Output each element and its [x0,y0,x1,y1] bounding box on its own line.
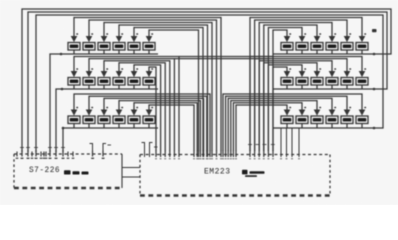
wire: valve YV13 control lead up to bundle y=94 right to column x=210 down to EM223 terminal [74,94,210,151]
junction on left row 3 bus [62,127,65,130]
solenoid valve YV2 actuator arrow [86,36,93,42]
wire: valve YV11 control lead up to bundle y=65 right to column x=161 down to EM223 terminal [134,65,161,151]
terminal label tick [196,158,198,159]
solenoid valve YV5 actuator arrow [131,36,138,42]
wire: valve YV10 common stub to row bus [118,85,120,89]
solenoid valve YV21 pin label [319,33,321,35]
wire: valve YV31 control lead up to bundle y=105 left to column x=236 down to EM223 terminal [236,105,287,151]
wire: valve YV23 control lead up to bundle y=20 left to column x=255 down to EM223 terminal [255,20,347,151]
wire: valve YV4 control lead up to bundle y=25 right to column x=208 down to EM223 terminal [119,25,208,151]
solenoid valve YV18 pin label [151,107,153,109]
wire: valve YV27 common stub to row bus [316,85,318,89]
solenoid valve YV9 box [98,78,110,86]
spare terminal pin on S7-226 top edge x=73 [72,152,74,157]
solenoid valve YV13 box [68,116,80,124]
solenoid valve YV23 box [341,43,353,51]
expansion module U2 EM223 outline left edge (dashed) [139,155,141,196]
spare output stub on EM223 top edge x=281 [280,129,282,158]
wire: valve YV3 control lead up to bundle y=22 right to column x=212 down to EM223 terminal [104,23,212,152]
wire: valve YV11 common stub to row bus [133,85,135,89]
EM223 supply terminal stub L+ [142,143,145,158]
wire: valve YV14 control lead up to bundle y=96 right to column x=207 down to EM223 terminal [89,96,207,151]
wire: valve YV8 common stub to row bus [88,85,90,89]
wire: net COM3 from S7-226 terminal up left riser x=36 across top y=15 down right riser x=383 to row-3R bus [36,15,383,152]
solenoid valve YV27 pin label [319,68,321,70]
wire: valve YV26 control lead up to bundle y=65 left to column x=268 down to EM223 terminal [268,65,302,151]
terminal pin on EM223 top edge x=169.8 [169,151,171,158]
terminal pin on EM223 top edge x=236.0 [235,151,237,158]
terminal label tick [249,158,251,159]
wire: valve YV18 common stub to row bus [148,124,150,129]
terminal pin on EM223 top edge x=233.4 [232,151,234,158]
solenoid valve YV4 box [113,43,125,51]
solenoid valve YV3 pin label [106,33,108,35]
terminal label tick [206,158,208,159]
terminal pin on EM223 top edge x=228.2 [227,151,229,158]
solenoid valve YV7 box [68,78,80,86]
terminal pin on EM223 top edge x=259.2 [258,151,260,158]
scan noise overlay [0,0,1,1]
solenoid valve YV6 box [143,43,155,51]
solenoid valve YV24 actuator arrow [359,36,366,42]
solenoid valve YV9 pin label [106,68,108,70]
solenoid valve YV22 box [326,43,338,51]
spare terminal label tick [67,158,70,159]
solenoid valve YV36 pin label [364,107,366,109]
wire: valve YV2 common stub to row bus [88,50,90,54]
wire: valve YV20 common stub to row bus [301,50,303,54]
wire: valve YV22 control lead up to bundle y=22 left to column x=259 down to EM223 terminal [259,23,332,152]
spare terminal pin on S7-226 top edge x=32 [31,152,33,157]
solenoid valve YV34 pin label [334,107,336,109]
solenoid valve YV5 pin label [136,33,138,35]
terminal label tick [206,158,208,159]
spare terminal label tick [31,158,34,159]
wire: valve YV1 control lead up to bundle y=18 right to column x=221 down to EM223 terminal [74,18,221,152]
wire: valve YV33 control lead up to bundle y=101 left to column x=231 down to EM223 terminal [231,101,317,151]
wire: valve YV25 common stub to row bus [286,85,288,89]
terminal label tick S7-226 pin 6 [61,158,64,159]
wire: valve YV32 common stub to row bus [301,124,303,129]
solenoid valve YV6 pin label [151,33,153,35]
wire: left row 2 common bus and drop to S7-226 terminal [56,89,158,152]
solenoid valve YV12 pin label [151,68,153,70]
solenoid valve YV19 pin label [289,33,291,35]
spare stub label tick [291,158,293,159]
terminal pin on EM223 top edge x=207.5 [207,151,209,158]
solenoid valve YV36 box [356,116,368,124]
solenoid valve YV32 box [296,116,308,124]
wire: valve YV20 control lead up to bundle y=28 left to column x=268 down to EM223 terminal [268,28,302,152]
wire: valve YV5 common stub to row bus [133,50,135,54]
wire: valve YV26 common stub to row bus [301,85,303,89]
wire: net COM2 from S7-226 terminal up left riser x=28 across top y=12 down right riser x=387 to row-2R bus [28,12,387,152]
wire: valve YV30 control lead up to bundle y=56 left to column x=250 down to EM223 terminal [250,57,362,152]
terminal label tick [197,158,199,159]
terminal pin on EM223 top edge x=225.6 [225,151,227,158]
terminal label tick S7-226 pin 3 [34,158,37,159]
solenoid valve YV1 pin label [76,33,78,35]
junction on right row 2 bus [373,88,376,91]
solenoid valve YV9 actuator arrow [101,71,108,77]
solenoid valve YV15 box [98,116,110,124]
solenoid valve YV35 pin label [349,107,351,109]
wire: valve YV15 common stub to row bus [103,124,105,129]
wire: valve YV3 common stub to row bus [103,50,105,54]
spare terminal pin on S7-226 top edge x=17 [16,152,18,157]
wire: right row 3 common bus [273,127,376,129]
wire: link segment across middle at row-2 bundle level lower [174,58,268,60]
solenoid valve YV19 actuator arrow [284,36,291,42]
wire: valve YV9 common stub to row bus [103,85,105,89]
terminal label tick [258,158,260,159]
wire: valve YV19 common stub to row bus [286,50,288,54]
solenoid valve YV26 box [296,78,308,86]
wire: valve YV17 control lead up to bundle y=103 right to column x=197 down to EM223 terminal [134,103,197,151]
solenoid valve YV32 pin label [304,107,306,109]
wire: valve YV35 control lead up to bundle y=96 left to column x=226 down to EM223 terminal [226,96,347,151]
terminal pin on S7-226 top edge x=36 [35,150,37,157]
terminal label tick S7-226 pin 4 [48,158,51,159]
spare stub label tick [285,158,287,159]
solenoid valve YV11 pin label [136,68,138,70]
PLC module U1 type label smudge [64,170,71,174]
terminal label tick [227,158,229,159]
solenoid valve YV31 box [281,116,293,124]
solenoid valve YV4 pin label [121,33,123,35]
wire: valve YV34 common stub to row bus [331,124,333,129]
floating label mark near right riser [372,29,377,32]
solenoid valve YV7 actuator arrow [71,71,78,77]
terminal pin on S7-226 top edge x=56 [55,150,57,157]
terminal label tick [222,158,224,159]
spare output stub on EM223 top edge x=292 [291,129,293,158]
wire: link segment across middle at row-2 bundle level [179,56,273,58]
terminal pin on EM223 top edge x=203.6 [203,151,205,158]
sensor supply terminal pair L+ on S7-226 [90,144,93,155]
wire: valve YV30 common stub to row bus [361,85,363,89]
solenoid valve YV33 box [311,116,323,124]
wire: valve YV13 common stub to row bus [73,124,75,129]
terminal label tick [211,158,213,159]
solenoid valve YV15 pin label [106,107,108,109]
wire: net COM1 from S7-226 terminal up left riser x=22 across top y=9 down right riser x=391 to row-1R bus [22,9,391,152]
solenoid valve YV18 box [143,116,155,124]
solenoid valve YV29 pin label [349,68,351,70]
wire: valve YV6 control lead up to bundle y=30 right to column x=198 down to EM223 terminal [149,30,199,151]
wire: valve YV12 control lead up to bundle y=67 right to column x=156 down to EM223 terminal [149,67,156,151]
solenoid valve YV29 box [341,78,353,86]
wire tag mark on EM223 lead x=264.5 [263,144,267,146]
wire: valve YV32 control lead up to bundle y=103 left to column x=233 down to EM223 terminal [233,103,302,151]
solenoid valve YV14 pin label [91,107,93,109]
wire: right row 1 common bus [273,53,376,55]
wire: valve YV21 control lead up to bundle y=25 left to column x=264 down to EM223 terminal [264,25,317,151]
solenoid valve YV33 actuator arrow [314,110,321,116]
supply pair terminal ticks [92,151,94,157]
wire: valve YV31 common stub to row bus [286,124,288,129]
terminal pin on EM223 top edge x=203.0 [202,151,204,158]
terminal pin on EM223 top edge x=268.4 [267,151,269,158]
spare terminal label tick [40,158,43,159]
terminal pin on EM223 top edge x=194.0 [193,151,195,158]
PLC module U1 S7-226 outline right edge [121,154,123,188]
terminal pin on EM223 top edge x=263.8 [263,151,265,158]
terminal label tick [178,158,180,159]
terminal pin on EM223 top edge x=198.5 [198,151,200,158]
solenoid valve YV11 box [128,78,140,86]
expansion module U2 type label smudge [242,170,248,175]
solenoid valve YV32 actuator arrow [299,110,306,116]
spare terminal label tick [45,158,48,159]
wire: valve YV12 common stub to row bus [148,85,150,89]
terminal label tick [155,158,157,159]
terminal label tick [272,158,274,159]
terminal pin on EM223 top edge x=230.8 [230,151,232,158]
solenoid valve YV3 actuator arrow [101,36,108,42]
terminal pin on EM223 top edge x=250.0 [249,151,251,158]
wire: valve YV9 control lead up to bundle y=61 right to column x=170 down to EM223 terminal [104,61,170,151]
terminal pin on EM223 top edge x=174.4 [173,151,175,158]
solenoid valve YV17 actuator arrow [131,110,138,116]
terminal label tick [209,158,211,159]
wire: valve YV6 common stub to row bus [148,50,150,54]
wire: valve YV28 common stub to row bus [331,85,333,89]
terminal label tick [215,158,217,159]
terminal pin on EM223 top edge x=221.0 [220,151,222,158]
wire: left row 3 common bus and drop to S7-226 terminal [63,128,158,152]
terminal pin on EM223 top edge x=210.0 [209,151,211,158]
terminal pin on EM223 top edge x=216.5 [216,151,218,158]
expansion module U2 EM223 outline bottom edge (bold dashed) [140,194,330,196]
spare terminal label tick [16,158,19,159]
PLC module U1 S7-226 outline bottom edge (bold dashed) [14,187,122,189]
terminal pin on EM223 top edge x=200.4 [199,151,201,158]
terminal label tick [193,158,195,159]
solenoid valve YV5 box [128,43,140,51]
wire: valve YV23 common stub to row bus [346,50,348,54]
solenoid valve YV30 box [356,78,368,86]
wire: valve YV7 control lead up to bundle y=56 right to column x=179 down to EM223 terminal [74,57,179,152]
terminal label tick [164,158,166,159]
terminal label tick [220,158,222,159]
terminal label tick [173,158,175,159]
wire: valve YV8 control lead up to bundle y=59 right to column x=174 down to EM223 terminal [89,59,174,151]
spare output stub on EM223 top edge x=286.5 [286,129,288,158]
spare terminal label tick [72,158,75,159]
spare stub label tick [298,158,300,159]
solenoid valve YV35 actuator arrow [344,110,351,116]
solenoid valve YV23 pin label [349,33,351,35]
solenoid valve YV27 box [311,78,323,86]
wire: valve YV34 control lead up to bundle y=98 left to column x=228 down to EM223 terminal [228,98,332,151]
junction on left row 2 bus [61,88,64,91]
solenoid valve YV20 actuator arrow [299,36,306,42]
solenoid valve YV21 box [311,43,323,51]
wire: valve YV4 common stub to row bus [118,50,120,54]
terminal pin on S7-226 top edge x=63 [62,150,64,157]
solenoid valve YV28 box [326,78,338,86]
spare terminal pin on S7-226 top edge x=46 [45,152,47,157]
solenoid valve YV27 actuator arrow [314,71,321,77]
wire tag mark on S7-226 lead x=50 [48,147,52,149]
terminal pin on EM223 top edge x=197.2 [196,151,198,158]
spare terminal pin on S7-226 top edge x=44 [43,152,45,157]
solenoid valve YV31 pin label [289,107,291,109]
wire: valve YV16 control lead up to bundle y=101 right to column x=200 down to EM223 terminal [119,101,200,151]
junction on right row 3 bus [373,127,376,130]
sensor supply terminal pair M on S7-226 [103,144,106,155]
wire: valve YV25 control lead up to bundle y=67 left to column x=273 down to EM223 terminal [273,67,287,151]
solenoid valve YV3 box [98,43,110,51]
terminal label tick [263,158,265,159]
wire tag mark on S7-226 lead x=28 [26,147,30,149]
terminal label tick [225,158,227,159]
terminal label tick [202,158,204,159]
terminal pin on EM223 top edge x=273.0 [272,151,274,158]
wire tag mark on EM223 lead x=257.6 [256,144,260,146]
EM223 supply terminal stub M [150,143,153,158]
wire: valve YV28 control lead up to bundle y=61 left to column x=259 down to EM223 terminal [259,61,332,151]
solenoid valve YV2 pin label [91,33,93,35]
solenoid valve YV20 pin label [304,33,306,35]
wire: left row 1 common bus and drop to S7-226 terminal [50,54,158,152]
wire: valve YV33 common stub to row bus [316,124,318,129]
spare output stub on EM223 top edge x=299 [298,129,300,158]
wire: valve YV36 control lead up to bundle y=94 left to column x=223 down to EM223 terminal [223,94,362,151]
solenoid valve YV15 actuator arrow [101,110,108,116]
solenoid valve YV22 actuator arrow [329,36,336,42]
solenoid valve YV4 actuator arrow [116,36,123,42]
terminal label tick S7-226 pin 2 [26,158,29,159]
solenoid valve YV31 actuator arrow [284,110,291,116]
solenoid valve YV24 box [356,43,368,51]
solenoid valve YV26 pin label [304,68,306,70]
wire: valve YV22 common stub to row bus [331,50,333,54]
solenoid valve YV22 pin label [334,33,336,35]
solenoid valve YV1 box [68,43,80,51]
wire: valve YV21 common stub to row bus [316,50,318,54]
PLC module U1 S7-226 outline left edge (dashed) [13,154,15,188]
solenoid valve YV16 actuator arrow [116,110,123,116]
terminal pin on EM223 top edge x=156.0 [155,151,157,158]
wire: valve YV36 common stub to row bus [361,124,363,129]
solenoid valve YV33 pin label [319,107,321,109]
solenoid valve YV12 actuator arrow [146,71,153,77]
terminal label tick [199,158,201,159]
spare terminal pin on S7-226 top edge x=68 [67,152,69,157]
solenoid valve YV34 actuator arrow [329,110,336,116]
terminal pin on EM223 top edge x=212.0 [211,151,213,158]
solenoid valve YV21 actuator arrow [314,36,321,42]
solenoid valve YV10 actuator arrow [116,71,123,77]
terminal label tick [235,158,237,159]
terminal pin on EM223 top edge x=254.6 [254,151,256,158]
wire: valve YV1 common stub to row bus [73,50,75,54]
solenoid valve YV2 box [83,43,95,51]
wire: valve YV14 common stub to row bus [88,124,90,129]
solenoid valve YV17 box [128,116,140,124]
solenoid valve YV28 pin label [334,68,336,70]
wire: valve YV15 control lead up to bundle y=98 right to column x=204 down to EM223 terminal [104,98,204,151]
solenoid valve YV26 actuator arrow [299,71,306,77]
solenoid valve YV11 actuator arrow [131,71,138,77]
wire: valve YV2 control lead up to bundle y=20 right to column x=216 down to EM223 terminal [89,20,217,151]
terminal pin on EM223 top edge x=223.0 [222,151,224,158]
wire tag mark on S7-226 lead x=56 [54,147,58,149]
terminal pin on S7-226 top edge x=28 [27,150,29,157]
solenoid valve YV8 pin label [91,68,93,70]
solenoid valve YV35 box [341,116,353,124]
solenoid valve YV10 pin label [121,68,123,70]
solenoid valve YV25 pin label [289,68,291,70]
wire: valve YV24 common stub to row bus [361,50,363,54]
terminal label tick [230,158,232,159]
terminal pin on S7-226 top edge x=22 [21,150,23,157]
wire: valve YV10 control lead up to bundle y=63 right to column x=165 down to EM223 terminal [119,63,165,151]
wire: valve YV7 common stub to row bus [73,85,75,89]
wire tag mark on EM223 lead x=250 [248,144,252,146]
expansion module U2 EM223 outline top edge (dashed) [140,154,330,156]
wire: valve YV19 control lead up to bundle y=30 left to column x=273 down to EM223 terminal [273,30,287,151]
terminal pin on EM223 top edge x=179.0 [178,151,180,158]
solenoid valve YV34 box [326,116,338,124]
solenoid valve YV16 pin label [121,107,123,109]
solenoid valve YV19 box [281,43,293,51]
terminal label tick [203,158,205,159]
solenoid valve YV14 box [83,116,95,124]
wire: valve YV27 control lead up to bundle y=63 left to column x=264 down to EM223 terminal [264,63,317,151]
solenoid valve YV8 actuator arrow [86,71,93,77]
wire: valve YV35 common stub to row bus [346,124,348,129]
solenoid valve YV8 box [83,78,95,86]
terminal label tick [267,158,269,159]
solenoid valve YV23 actuator arrow [344,36,351,42]
terminal label tick [232,158,234,159]
label tick near EM223 supply pair [154,146,158,148]
solenoid valve YV13 actuator arrow [71,110,78,116]
solenoid valve YV29 actuator arrow [344,71,351,77]
solenoid valve YV16 box [113,116,125,124]
terminal label tick [160,158,162,159]
wire tag mark on S7-226 lead x=36 [34,147,38,149]
spare terminal pin on S7-226 top edge x=41 [40,152,42,157]
solenoid valve YV24 pin label [364,33,366,35]
solenoid valve YV30 actuator arrow [359,71,366,77]
terminal label tick [169,158,171,159]
wire: valve YV17 common stub to row bus [133,124,135,129]
solenoid valve YV7 pin label [76,68,78,70]
wire tag mark on EM223 lead x=272.8 [271,144,275,146]
wire: right row 2 common bus [273,88,376,90]
solenoid valve YV18 actuator arrow [146,110,153,116]
terminal pin on EM223 top edge x=206.8 [206,151,208,158]
solenoid valve YV14 actuator arrow [86,110,93,116]
solenoid valve YV10 box [113,78,125,86]
wire: valve YV5 control lead up to bundle y=28 right to column x=203 down to EM223 terminal [134,28,203,152]
solenoid valve YV6 actuator arrow [146,36,153,42]
bus cable between S7-226 and EM223 upper conductor [122,167,140,169]
junction on right row 1 bus [373,53,376,56]
solenoid valve YV12 box [143,78,155,86]
solenoid valve YV30 pin label [364,68,366,70]
terminal pin on EM223 top edge x=165.2 [164,151,166,158]
solenoid valve YV28 actuator arrow [329,71,336,77]
solenoid valve YV25 actuator arrow [284,71,291,77]
wire: valve YV18 control lead up to bundle y=105 right to column x=194 down to EM223 terminal [149,105,194,151]
terminal label tick [254,158,256,159]
bus cable between S7-226 and EM223 lower conductor [122,176,140,178]
